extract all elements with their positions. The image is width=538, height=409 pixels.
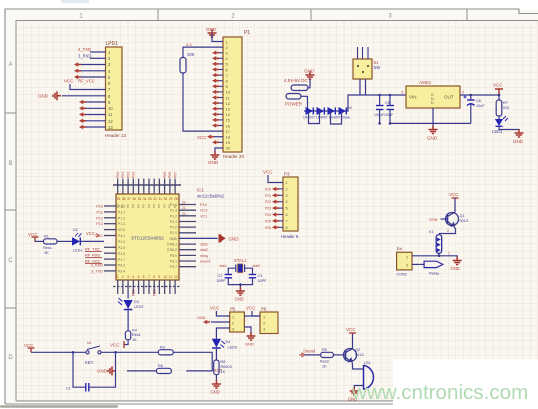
svg-text:7: 7 (286, 219, 288, 223)
svg-text:100uF/25uF: 100uF/25uF (374, 113, 394, 117)
svg-text:P1.0: P1.0 (170, 226, 177, 230)
svg-text:XTAL1: XTAL1 (167, 243, 177, 247)
power GND symbol under U1 (429, 126, 438, 134)
svg-text:P0: P0 (162, 204, 166, 208)
wire sound to R5 (305, 354, 321, 356)
svg-text:35: 35 (138, 197, 142, 201)
svg-text:GND: GND (235, 297, 244, 302)
svg-text:2: 2 (447, 229, 449, 233)
svg-text:8: 8 (153, 275, 155, 279)
svg-text:10: 10 (108, 106, 113, 111)
wire U loop1 below diodes (309, 111, 320, 124)
svg-text:P00: P00 (116, 172, 120, 178)
svg-text:KEY: KEY (85, 360, 94, 365)
svg-text:GND: GND (169, 237, 177, 241)
svg-text:P01: P01 (121, 172, 125, 178)
svg-text:C1: C1 (66, 387, 71, 391)
mcu right inner pin names (167, 203, 178, 269)
connector P6 body (260, 312, 278, 334)
svg-text:510: 510 (503, 106, 509, 110)
svg-text:1K: 1K (132, 338, 137, 342)
svg-text:P1: P1 (244, 30, 250, 36)
wire P5 pin2 to gnd arrow (211, 321, 230, 323)
mcu left boxed net labels RF (85, 248, 100, 264)
svg-text:rst: rst (87, 341, 91, 345)
mcu inner top pin names (116, 204, 177, 208)
mcu U2 top pin stubs (118, 179, 175, 194)
wire diode row (304, 110, 348, 112)
svg-text:CON2: CON2 (397, 273, 408, 277)
svg-text:R1: R1 (44, 235, 49, 239)
svg-text:1: 1 (406, 256, 408, 260)
crystal Y1 plates (236, 265, 245, 273)
svg-text:P23: P23 (265, 207, 271, 211)
diode D1 (306, 107, 314, 115)
wire U1 out rail (460, 94, 499, 96)
svg-text:3_TXD: 3_TXD (91, 269, 103, 273)
svg-text:3: 3 (286, 194, 288, 198)
transistor Q1 (446, 212, 459, 226)
wire xtal gnd drop (239, 285, 241, 289)
mcu left net labels (95, 205, 103, 239)
svg-text:13: 13 (226, 107, 231, 112)
svg-text:4: 4 (286, 200, 288, 204)
wire Q2 collector to vcc (352, 333, 354, 349)
wire P1 pin1 to gnd (212, 33, 223, 42)
svg-text:Res1: Res1 (43, 246, 52, 250)
svg-text:VC1: VC1 (200, 214, 207, 218)
wire P4 pin1 to coil bottom (412, 255, 439, 257)
svg-text:B: B (8, 161, 12, 167)
svg-text:Relay: Relay (429, 271, 439, 276)
power GND symbol reset (108, 366, 116, 375)
svg-text:VCC: VCC (64, 79, 74, 84)
capacitor C1 plates (86, 383, 89, 392)
wire P2 pin4 (78, 70, 106, 72)
net arrow P2 pin9 (79, 100, 86, 104)
switch S1 top pins (358, 47, 369, 59)
svg-text:12: 12 (108, 119, 113, 124)
wire P2 pin3 (78, 64, 106, 66)
wire D4 to R8 (215, 348, 217, 360)
wire P1 pin20 to gnd (215, 148, 223, 152)
wire P2 pin12 (83, 120, 106, 122)
wire vcc to R1 (35, 240, 44, 242)
svg-text:P1.4: P1.4 (118, 240, 125, 244)
net labels P3 pins (265, 187, 271, 229)
net labels vertical above mcu left group (116, 172, 136, 178)
svg-text:P1.1: P1.1 (170, 203, 177, 207)
svg-text:P0: P0 (142, 204, 146, 208)
svg-text:R8: R8 (221, 360, 226, 364)
wire R6 left to gnd (127, 370, 156, 372)
svg-text:1K: 1K (221, 370, 226, 374)
svg-text:GND: GND (211, 390, 220, 395)
svg-text:P6: P6 (261, 307, 267, 312)
net labels vertical below mcu (132, 290, 157, 296)
svg-text:GND: GND (427, 136, 438, 141)
svg-text:VCC: VCC (110, 343, 120, 348)
connector P5 pin numbers (232, 316, 234, 332)
wire Q2 emitter to buzzer (352, 362, 364, 369)
svg-text:VCC: VCC (210, 306, 219, 311)
svg-text:P14: P14 (200, 203, 207, 207)
transistor Q2 (344, 349, 357, 362)
svg-text:P10: P10 (96, 205, 103, 209)
svg-text:P24: P24 (265, 213, 271, 217)
net arrow sound (299, 353, 305, 357)
svg-text:P07: P07 (173, 172, 177, 178)
net arrow P2 pin11 (79, 112, 86, 116)
wire xtal left branch (228, 268, 236, 274)
svg-text:VCC: VCC (24, 343, 34, 348)
wire P5 pin3 down to LED D4 (216, 328, 229, 339)
svg-text:P20: P20 (132, 290, 136, 296)
connector P6 pin numbers (263, 316, 265, 332)
svg-text:P1.2: P1.2 (170, 214, 177, 218)
wire buzzer bottom to gnd (354, 386, 363, 389)
svg-text:P2.0: P2.0 (170, 231, 177, 235)
svg-text:37: 37 (127, 197, 131, 201)
svg-text:2: 2 (232, 322, 234, 326)
relay K1 coil body (436, 235, 442, 254)
junction dot vcc (498, 94, 501, 97)
svg-text:relay: relay (429, 217, 438, 222)
mcu left inner pin names (118, 205, 126, 274)
mcu left net labels serial (91, 264, 103, 274)
svg-text:P1.3: P1.3 (118, 222, 125, 226)
svg-text:P1.2: P1.2 (118, 216, 125, 220)
connector P5 body (230, 312, 245, 332)
wire R3 to rst corner (173, 352, 212, 371)
bottom left photo edge line (0, 405, 118, 407)
svg-text:D2: D2 (73, 228, 78, 232)
svg-text:A: A (8, 62, 12, 68)
net labels vertical above mcu right group (163, 172, 178, 178)
column tick 2-3 (310, 9, 312, 21)
svg-text:P1.5: P1.5 (118, 246, 125, 250)
svg-text:K1: K1 (429, 230, 434, 234)
wire diode out to vin rail (346, 95, 406, 111)
svg-text:3: 3 (401, 91, 403, 95)
svg-text:5: 5 (286, 207, 288, 211)
wire P2 pin5 (78, 76, 106, 78)
svg-text:xtal2: xtal2 (253, 264, 261, 268)
svg-text:P13: P13 (96, 222, 103, 226)
svg-text:3.3: 3.3 (186, 42, 192, 47)
svg-text:30PF: 30PF (217, 279, 227, 283)
row tick C-D (5, 307, 16, 309)
mcu top pin numbers (117, 197, 178, 201)
svg-text:VCC: VCC (28, 232, 38, 237)
resistor R7 body (496, 100, 502, 116)
svg-text:P4.1: P4.1 (118, 234, 125, 238)
svg-text:3_RXD: 3_RXD (78, 54, 92, 59)
row tick B-C (5, 209, 16, 211)
svg-text:GND: GND (451, 266, 460, 271)
svg-text:23: 23 (182, 201, 186, 205)
power GND symbol right of mcu (219, 234, 226, 243)
wire U loop2 below diodes (331, 111, 342, 124)
svg-text:P1.6: P1.6 (118, 252, 125, 256)
svg-text:POWER: POWER (285, 102, 303, 107)
connector P1 pin numbers (226, 40, 231, 151)
wire P5-P6 link mid to gnd (244, 327, 251, 334)
svg-text:C2: C2 (218, 274, 223, 278)
svg-text:VCC: VCC (246, 306, 255, 311)
net arrows P3 pins (272, 187, 279, 230)
svg-text:P11: P11 (97, 210, 103, 214)
mcu U2 body (116, 194, 179, 280)
svg-text:relay: relay (200, 254, 208, 258)
wire R5 to Q2 base (333, 354, 345, 356)
svg-text:2: 2 (462, 91, 464, 95)
resistor R1 body (44, 239, 58, 244)
capacitor C6 plus sign (464, 96, 467, 99)
svg-text:10uF: 10uF (476, 104, 485, 108)
svg-text:Res1: Res1 (132, 333, 141, 337)
power VCC symbol right (495, 89, 503, 95)
wire vcc to P6 pin1 (252, 311, 260, 316)
wire vcc to P5 pin1 (216, 311, 229, 316)
LED D2 arrows (75, 233, 82, 237)
svg-text:30: 30 (164, 197, 168, 201)
wire P1 pin2 to resistor R2 (183, 47, 223, 57)
wire vcc to key (31, 351, 86, 353)
svg-text:VIN: VIN (409, 95, 417, 100)
wire P2 pin2 (90, 57, 106, 59)
svg-text:18: 18 (226, 135, 231, 140)
connector J1 POWER prong2 (286, 94, 301, 100)
junction dot xtal (239, 283, 242, 286)
svg-text:Header 20: Header 20 (223, 154, 245, 159)
wire ground rail power (390, 122, 471, 124)
svg-text:14: 14 (226, 112, 231, 117)
svg-text:P26: P26 (265, 226, 271, 230)
LED D3 (124, 300, 133, 309)
svg-text:GND: GND (38, 94, 49, 99)
svg-text:P1.0: P1.0 (118, 205, 125, 209)
power VCC symbol led1 (32, 237, 39, 242)
wire P2 pin1 (90, 51, 106, 53)
svg-text:XTAL1: XTAL1 (234, 258, 247, 263)
svg-text:AMS1: AMS1 (419, 80, 432, 85)
svg-text:Header 13: Header 13 (105, 133, 127, 138)
port Relay arrow (424, 261, 443, 267)
switch S2 KEY contacts (86, 346, 101, 354)
relay K1 coil arrows (437, 238, 441, 253)
sheet band fill left (5, 9, 16, 404)
wire coil bottom to gnd row (439, 253, 457, 257)
svg-text:R3: R3 (160, 346, 165, 350)
power VCC symbol relay (452, 197, 459, 199)
svg-text:5: 5 (138, 275, 140, 279)
connector J1 POWER prong1 (291, 85, 308, 91)
wire xtal bottom rail (228, 278, 252, 285)
connector P2 Header13 body (106, 47, 123, 130)
svg-text:D: D (8, 355, 13, 361)
svg-text:P0: P0 (136, 204, 140, 208)
svg-text:1K: 1K (322, 365, 327, 369)
svg-text:9013: 9013 (460, 219, 468, 223)
buzzer LS1 body (364, 365, 374, 390)
power GND symbol relay (453, 257, 462, 265)
power GND symbol isp middle (247, 332, 256, 340)
wire C5 vertical (389, 95, 391, 123)
wire P2 pin13 (83, 126, 106, 128)
svg-text:Q1: Q1 (460, 214, 465, 218)
sheet band fill top (5, 9, 538, 21)
power GND symbol below R8 (212, 380, 221, 388)
svg-text:P0: P0 (157, 204, 161, 208)
power GND symbol P2 (53, 91, 61, 100)
svg-text:VCC: VCC (197, 135, 207, 140)
net arrows P1 left pins (212, 51, 219, 145)
svg-text:3_TXD: 3_TXD (78, 47, 91, 52)
svg-text:xtal1: xtal1 (219, 264, 227, 268)
underline RF labels (85, 252, 102, 264)
svg-text:VCC: VCC (449, 192, 459, 197)
power GND symbol P1 top (208, 29, 217, 37)
LED D4 arrows (221, 341, 226, 348)
mcu left pin stubs (104, 206, 116, 271)
svg-text:P1.7: P1.7 (118, 258, 125, 262)
capacitor C2 plates (225, 275, 232, 278)
svg-text:10K: 10K (187, 52, 195, 57)
svg-text:P0: P0 (131, 204, 135, 208)
svg-text:21: 21 (182, 206, 186, 210)
connector P1 Header20 body (223, 37, 242, 152)
svg-text:P12: P12 (96, 216, 103, 220)
svg-text:20: 20 (182, 212, 186, 216)
svg-text:P1.3: P1.3 (170, 209, 177, 213)
wire Q1 emitter to relay coil (439, 226, 456, 233)
svg-text:STC12C5A60S2: STC12C5A60S2 (131, 236, 164, 241)
svg-text:1: 1 (232, 316, 234, 320)
svg-text:LED2: LED2 (134, 305, 144, 309)
svg-text:P21: P21 (265, 194, 271, 198)
svg-text:13: 13 (108, 125, 113, 130)
capacitor C4 plates (376, 106, 384, 110)
svg-text:GND: GND (229, 236, 240, 241)
mcu bottom pin numbers (117, 275, 178, 279)
svg-text:R4: R4 (132, 329, 137, 333)
bus wire above mcu (113, 184, 181, 186)
svg-text:P4: P4 (397, 247, 403, 252)
wire mcu pin20 to gnd (179, 237, 218, 239)
net arrow P2 pin3 (74, 62, 81, 66)
switch S1 contacts (357, 65, 369, 73)
svg-text:stc12c5a60s2: stc12c5a60s2 (197, 194, 225, 199)
wire U1 gnd pin down (432, 108, 434, 127)
power VCC symbol led2 (123, 341, 125, 348)
row tick A-B (5, 112, 16, 114)
svg-text:P22: P22 (152, 290, 156, 296)
svg-text:P1.1: P1.1 (170, 220, 177, 224)
svg-text:Q2: Q2 (355, 348, 360, 352)
net arrow P2 pin10 (79, 106, 86, 110)
svg-text:P0: P0 (147, 204, 151, 208)
svg-text:C3: C3 (258, 274, 263, 278)
svg-text:1: 1 (286, 181, 288, 185)
net arrow P2 pin13 (79, 125, 86, 129)
net arrow P2 pin5 (74, 75, 81, 79)
column tick 1-2 (157, 9, 159, 21)
LED D5 arrows (503, 116, 508, 121)
power GND symbol xtal (236, 287, 245, 295)
net arrow vcc mcu left (96, 234, 99, 238)
white patch bottom right (393, 360, 538, 409)
svg-text:xtal1: xtal1 (200, 243, 208, 247)
svg-text:RF_VCC: RF_VCC (78, 79, 95, 84)
capacitor C5 plates (387, 106, 395, 110)
svg-text:GND: GND (208, 160, 219, 165)
svg-text:12: 12 (174, 275, 178, 279)
svg-text:12: 12 (226, 101, 231, 106)
svg-text:R0603: R0603 (221, 365, 232, 369)
junction dot reset left (72, 351, 75, 354)
wire C6 vertical (470, 95, 472, 123)
svg-text:3: 3 (232, 328, 234, 332)
wire R7 to LED D5 (498, 116, 500, 119)
net arrow P2 pin12 (79, 119, 86, 123)
svg-text:6: 6 (286, 213, 288, 217)
wire D5 to gnd (499, 126, 519, 130)
svg-text:SW: SW (374, 65, 381, 70)
diode D3 (328, 107, 336, 115)
svg-text:20: 20 (226, 146, 231, 151)
svg-text:P3.0: P3.0 (170, 254, 177, 258)
svg-text:3_RXD: 3_RXD (91, 264, 103, 268)
svg-text:8: 8 (286, 226, 288, 230)
svg-text:R5: R5 (322, 348, 327, 352)
svg-text:Header 8: Header 8 (281, 234, 299, 239)
column tick 3-4 (466, 9, 468, 21)
svg-text:9: 9 (158, 275, 160, 279)
wire gnd to prong1 (308, 79, 310, 88)
svg-text:P3.2: P3.2 (118, 264, 125, 268)
svg-text:P3.1: P3.1 (170, 260, 177, 264)
svg-text:16: 16 (226, 124, 231, 129)
wire C4 vertical (379, 95, 381, 123)
svg-text:39: 39 (117, 197, 121, 201)
net arrow P2 pin4 (74, 69, 81, 73)
power GND arrow left isp (203, 320, 210, 324)
svg-text:GND: GND (97, 369, 108, 374)
capacitor C6 polarized (467, 100, 475, 106)
bus wire below mcu (113, 286, 181, 288)
mcu right pin stubs (179, 205, 196, 267)
svg-text:D4: D4 (226, 340, 231, 344)
svg-text:www.cntronics.com: www.cntronics.com (351, 381, 528, 404)
mcu right pin numbers (182, 201, 186, 216)
wire R4 to vcc (124, 340, 128, 345)
crystal Y1 body (238, 264, 243, 273)
svg-text:Sound: Sound (303, 349, 316, 354)
svg-text:1N4007 1N4007 1N4007 Diode: 1N4007 1N4007 1N4007 Diode (303, 116, 350, 120)
svg-text:OUT: OUT (444, 95, 454, 100)
wire key parallel cap branch (73, 352, 116, 387)
connector P4 pin numbers (406, 256, 408, 268)
svg-text:LS1: LS1 (364, 361, 371, 365)
svg-text:P5: P5 (230, 307, 236, 312)
LED D3 arrows (118, 298, 123, 305)
svg-text:P3.7: P3.7 (170, 265, 177, 269)
svg-text:1: 1 (448, 252, 450, 256)
svg-text:P3.4: P3.4 (118, 270, 125, 274)
svg-text:28: 28 (174, 197, 178, 201)
svg-text:C: C (8, 258, 13, 264)
